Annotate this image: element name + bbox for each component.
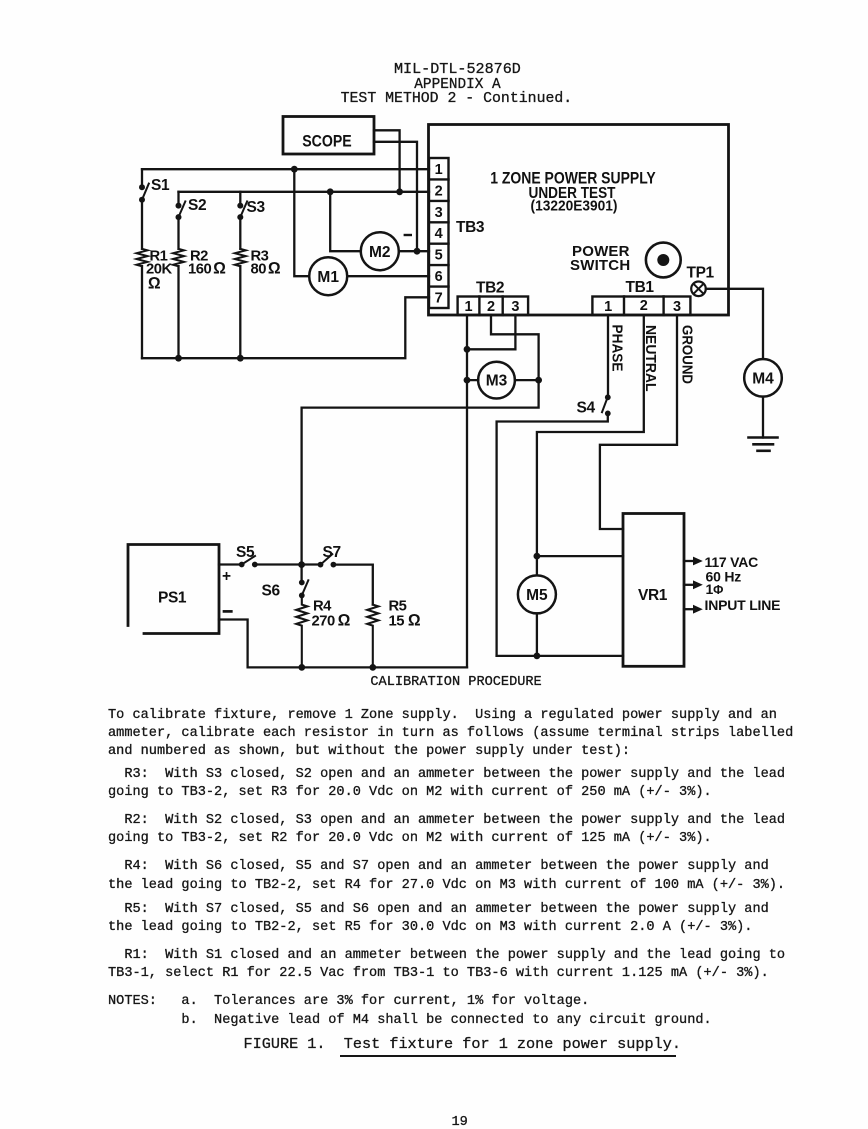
junction node scope/TB3-2 bbox=[396, 188, 403, 195]
svg-text:TB3: TB3 bbox=[456, 219, 485, 236]
svg-text:S4: S4 bbox=[577, 400, 596, 417]
junction node M5 bottom bbox=[534, 653, 541, 660]
arrow output 117 VAC bbox=[684, 554, 758, 570]
paragraph intro bbox=[108, 707, 793, 762]
wire M1 to TB3-6 bbox=[347, 275, 429, 277]
power supply PS1 bbox=[128, 545, 219, 634]
svg-text:PS1: PS1 bbox=[158, 590, 187, 607]
resistor R1 20K ohm bbox=[137, 249, 173, 359]
svg-text:GROUND: GROUND bbox=[678, 325, 695, 384]
svg-text:S5: S5 bbox=[236, 544, 255, 561]
resistor R5 15 ohm bbox=[367, 599, 421, 668]
meter M2 bbox=[361, 232, 399, 270]
junction node R2/bus bbox=[175, 355, 182, 362]
wire ground TB1-3 to VR1 bbox=[600, 315, 677, 529]
resistor R4 270 ohm bbox=[296, 595, 350, 667]
header line TEST METHOD bbox=[341, 90, 573, 108]
switch S7 bbox=[318, 544, 341, 567]
wire M5 top to VR1 bbox=[537, 555, 623, 557]
svg-text:4: 4 bbox=[435, 226, 443, 242]
page number bbox=[452, 1114, 468, 1129]
meter M3 bbox=[467, 362, 539, 399]
paragraph R5 bbox=[108, 901, 769, 937]
svg-text:M2: M2 bbox=[369, 244, 391, 261]
wire PS1 minus to lower bus bbox=[219, 620, 467, 668]
junction node R5/bus bbox=[369, 664, 376, 671]
resistor R2 160 ohm bbox=[173, 249, 226, 359]
figure caption bbox=[244, 1035, 681, 1053]
svg-text:M3: M3 bbox=[486, 373, 508, 390]
paragraph R2 bbox=[108, 812, 785, 848]
wire bottom bus to TB3-7 bbox=[142, 297, 429, 358]
switch S4 bbox=[577, 394, 611, 416]
wire TP1 to M4 bbox=[706, 289, 763, 359]
junction node row1 / M1 branch bbox=[291, 166, 298, 173]
arrow output INPUT LINE bbox=[684, 597, 780, 614]
svg-text:2: 2 bbox=[435, 183, 443, 199]
svg-text:3: 3 bbox=[511, 299, 519, 315]
wire scope upper lead to TB3-2 row bbox=[374, 130, 400, 192]
svg-text:TP1: TP1 bbox=[687, 265, 715, 282]
wire neutral TB1-2 to M5 top bbox=[537, 315, 644, 556]
svg-text:TB1: TB1 bbox=[626, 279, 655, 296]
wire phase rail to VR1 bottom bbox=[497, 655, 623, 657]
junction node R3/bus bbox=[237, 355, 244, 362]
unit under test box U1 (1 zone power supply) bbox=[429, 125, 729, 316]
arrow output 1 phase bbox=[684, 580, 723, 597]
switch S1 bbox=[139, 169, 170, 249]
wire M4 to ground bbox=[762, 397, 764, 438]
meter M1 bbox=[309, 257, 347, 295]
svg-text:R4: R4 bbox=[313, 599, 332, 615]
svg-text:6: 6 bbox=[435, 269, 443, 285]
wire S7 to R5 bbox=[333, 565, 372, 605]
svg-text:R5: R5 bbox=[389, 599, 407, 615]
svg-text:3: 3 bbox=[673, 299, 681, 315]
junction node R4/bus bbox=[298, 664, 305, 671]
heading CALIBRATION PROCEDURE bbox=[370, 674, 541, 692]
wire M1 branch vertical bbox=[294, 169, 309, 276]
svg-text:S7: S7 bbox=[323, 544, 341, 561]
svg-text:270Ω: 270Ω bbox=[312, 612, 351, 630]
notes bbox=[108, 993, 712, 1029]
terminal strip TB1 bbox=[592, 279, 690, 315]
svg-text:S6: S6 bbox=[262, 583, 281, 600]
junction node row2 / M2 branch bbox=[327, 188, 334, 195]
junction node M5 top bbox=[534, 553, 541, 560]
svg-text:1: 1 bbox=[435, 162, 443, 178]
wire TB2-1 down to lower bus bbox=[466, 315, 468, 667]
switch S3 bbox=[237, 192, 265, 249]
svg-text:Ω: Ω bbox=[148, 275, 161, 293]
wire scope lower lead to TB3-5 row bbox=[374, 142, 417, 251]
junction node scope/M2/TB3-5 bbox=[414, 248, 421, 255]
svg-text:5: 5 bbox=[435, 248, 443, 264]
svg-text:S1: S1 bbox=[151, 177, 170, 194]
terminal strip TB2 bbox=[458, 280, 528, 316]
oscilloscope SCOPE bbox=[283, 117, 374, 155]
svg-text:+: + bbox=[222, 568, 231, 585]
svg-text:160Ω: 160Ω bbox=[188, 260, 226, 278]
svg-text:7: 7 bbox=[435, 291, 443, 307]
paragraph R1 bbox=[108, 947, 785, 983]
minus terminal label bbox=[224, 610, 231, 613]
svg-text:1Φ: 1Φ bbox=[706, 581, 724, 597]
svg-text:VR1: VR1 bbox=[638, 587, 668, 604]
svg-text:S3: S3 bbox=[247, 199, 266, 216]
wire M2 to TB3-5 bbox=[399, 250, 429, 252]
junction node M3 right terminal bbox=[535, 377, 542, 384]
switch S6 bbox=[262, 565, 309, 600]
header line APPENDIX A bbox=[414, 76, 500, 94]
power switch SW1 bbox=[570, 243, 681, 278]
wire phase TB1-1 to S4 bbox=[607, 315, 609, 394]
svg-text:1: 1 bbox=[464, 299, 472, 315]
wire TB2-2 branch to S5/S7 node bbox=[302, 315, 539, 565]
wire S4 to phase bottom rail bbox=[497, 413, 608, 656]
junction node S5/S6 rail bbox=[298, 561, 305, 568]
wire row 1 (S1 top rail to TB3-1) bbox=[142, 168, 429, 170]
svg-text:2: 2 bbox=[640, 298, 648, 314]
svg-text:SWITCH: SWITCH bbox=[570, 257, 630, 274]
svg-text:INPUT LINE: INPUT LINE bbox=[705, 597, 781, 613]
svg-text:TB2: TB2 bbox=[476, 280, 504, 297]
svg-text:SCOPE: SCOPE bbox=[302, 132, 352, 150]
wire PS1 plus to S5 bbox=[219, 563, 239, 565]
svg-text:(13220E3901): (13220E3901) bbox=[531, 199, 618, 215]
voltage regulator VR1 bbox=[623, 514, 684, 667]
svg-text:3: 3 bbox=[435, 205, 443, 221]
svg-text:2: 2 bbox=[487, 299, 495, 315]
ground symbol bbox=[749, 438, 778, 451]
switch S5 bbox=[236, 544, 258, 567]
svg-text:M4: M4 bbox=[752, 370, 774, 387]
header line MIL-DTL-52876D bbox=[394, 60, 521, 78]
resistor R3 80 ohm bbox=[235, 249, 281, 359]
paragraph R4 bbox=[108, 858, 785, 894]
svg-text:S2: S2 bbox=[188, 197, 206, 214]
svg-text:M1: M1 bbox=[317, 269, 339, 286]
svg-text:M5: M5 bbox=[526, 587, 548, 604]
wire row 2 (S2 rail to TB3-2) bbox=[179, 191, 430, 193]
wire M2 branch vertical bbox=[330, 192, 361, 251]
meter M4 bbox=[744, 359, 782, 397]
junction node M3 left terminal bbox=[464, 377, 471, 384]
junction node TB2-3 branch / TB2-1 line bbox=[464, 346, 471, 353]
test point TP1 bbox=[687, 265, 715, 297]
wire TB2-3 branch to TB2-1 line bbox=[467, 315, 515, 349]
wire S5 to S7 bbox=[255, 563, 317, 565]
meter M5 bbox=[518, 556, 556, 656]
switch S2 bbox=[176, 192, 207, 249]
terminal strip TB3 bbox=[429, 158, 449, 308]
svg-text:80Ω: 80Ω bbox=[251, 260, 281, 278]
svg-text:PHASE: PHASE bbox=[608, 325, 625, 372]
paragraph R3 bbox=[108, 766, 785, 802]
svg-text:1: 1 bbox=[604, 299, 612, 315]
minus polarity mark at M2 bbox=[405, 234, 411, 236]
svg-text:NEUTRAL: NEUTRAL bbox=[642, 325, 659, 392]
